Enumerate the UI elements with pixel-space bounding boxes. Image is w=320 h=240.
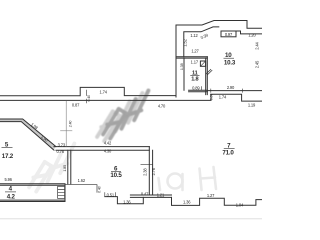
- svg-text:2.44: 2.44: [255, 41, 260, 49]
- svg-text:1.12: 1.12: [190, 33, 198, 38]
- svg-text:4.30: 4.30: [104, 148, 112, 153]
- tick crossing room6 right wall: [141, 164, 153, 166]
- long wall top face with niche: [0, 87, 176, 95]
- svg-text:10.3: 10.3: [224, 60, 236, 67]
- svg-text:2.76: 2.76: [151, 167, 156, 175]
- svg-text:1.52: 1.52: [182, 38, 187, 46]
- svg-text:71.0: 71.0: [222, 149, 234, 156]
- svg-text:1.8: 1.8: [191, 77, 198, 83]
- vent box in room 11: [200, 61, 205, 66]
- svg-text:3.73: 3.73: [58, 142, 66, 147]
- corridor dim extension line: [65, 101, 67, 147]
- svg-text:1.85: 1.85: [63, 165, 67, 172]
- room labels: [2, 52, 236, 200]
- sawtooth left: [105, 197, 144, 204]
- svg-text:0.47: 0.47: [141, 191, 149, 196]
- inner wall top-right block: [184, 27, 219, 57]
- long wall bottom face: [0, 94, 262, 101]
- svg-text:1.74: 1.74: [219, 95, 227, 100]
- room 11 top wall: [177, 57, 208, 58]
- svg-text:1.27: 1.27: [191, 49, 199, 54]
- faint watermark right: [159, 167, 217, 190]
- svg-text:10.5: 10.5: [110, 172, 122, 179]
- faint bottom crease line: [0, 218, 262, 220]
- svg-text:4.2: 4.2: [7, 194, 16, 201]
- svg-text:4.42: 4.42: [104, 140, 112, 145]
- room 11 right wall: [206, 57, 208, 95]
- svg-text:1.74: 1.74: [100, 89, 108, 94]
- svg-text:1.62: 1.62: [78, 178, 86, 183]
- door box room 4: [58, 186, 65, 198]
- svg-text:1.38: 1.38: [180, 63, 184, 70]
- svg-text:0.51: 0.51: [107, 192, 115, 197]
- svg-text:1.27: 1.27: [207, 193, 215, 198]
- tick after 0.89: [201, 87, 203, 91]
- room 6 right wall: [149, 147, 152, 195]
- left walls horizontal + diagonal: [0, 119, 56, 150]
- outer wall top-right block: [176, 21, 262, 98]
- svg-text:0.87: 0.87: [72, 102, 80, 107]
- svg-text:2.45: 2.45: [254, 60, 259, 68]
- door ticks room 11 right wall: [206, 69, 212, 74]
- svg-text:2.38: 2.38: [142, 168, 147, 176]
- svg-text:1.21: 1.21: [157, 193, 165, 198]
- svg-text:1.04: 1.04: [236, 202, 244, 207]
- wall under room6 right: [130, 195, 171, 197]
- tick at niche left: [85, 90, 87, 103]
- watermark shadow copy: [97, 93, 142, 141]
- svg-text:0.40: 0.40: [97, 186, 101, 193]
- inner wall right of window: [236, 31, 262, 34]
- svg-text:17.2: 17.2: [2, 153, 14, 160]
- window box 0.97: [221, 31, 236, 37]
- tick x97: [96, 185, 98, 192]
- faint watermark left: [29, 144, 74, 192]
- svg-text:0.67: 0.67: [209, 94, 213, 101]
- svg-text:0.78: 0.78: [57, 149, 65, 154]
- room 11 bottom wall: [189, 90, 208, 92]
- room 11 left inner wall: [183, 58, 185, 90]
- svg-text:0.97: 0.97: [225, 32, 233, 37]
- sawtooth right: [172, 197, 263, 205]
- dim 0.51 ticks: [105, 193, 116, 197]
- svg-text:0.89: 0.89: [192, 86, 200, 91]
- svg-text:0.40: 0.40: [87, 95, 91, 102]
- svg-text:5.96: 5.96: [5, 177, 13, 182]
- room 10 bottom face: [207, 90, 262, 92]
- svg-text:1.20: 1.20: [248, 33, 256, 38]
- svg-text:1.17: 1.17: [191, 59, 199, 64]
- room 6 left wall: [68, 150, 71, 183]
- svg-text:1.36: 1.36: [183, 199, 191, 204]
- svg-text:1.19: 1.19: [248, 103, 256, 108]
- room 4 bottom wall: [0, 200, 65, 201]
- svg-text:2.40: 2.40: [69, 121, 73, 128]
- svg-text:1.36: 1.36: [123, 199, 131, 204]
- svg-text:4.70: 4.70: [158, 103, 166, 108]
- svg-text:2.90: 2.90: [227, 85, 235, 90]
- dimension labels: [5, 32, 260, 208]
- dim ticks 2.90: [211, 89, 243, 92]
- room 4 top wall: [0, 184, 65, 201]
- watermark main AH: [103, 91, 148, 139]
- middle horizontal wall: [54, 147, 149, 151]
